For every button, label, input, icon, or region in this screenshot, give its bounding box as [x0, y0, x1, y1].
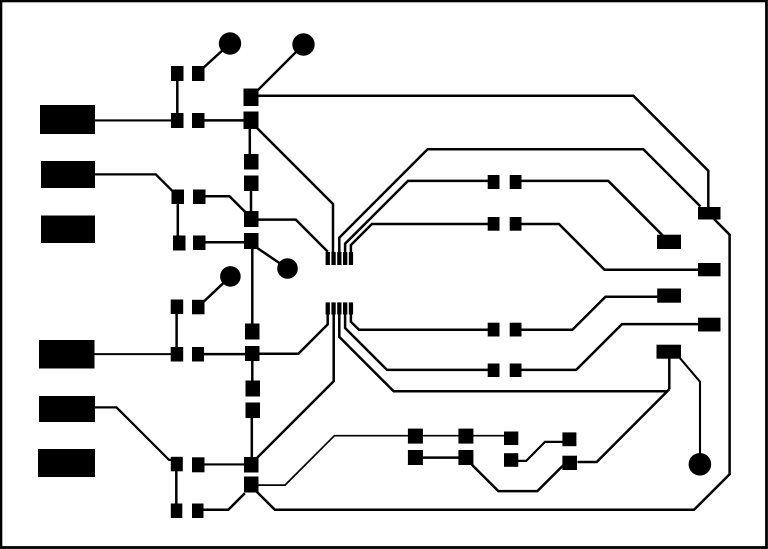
wire W17: [175, 314, 178, 349]
wire W10: [95, 174, 174, 192]
wire W1: [95, 119, 171, 121]
pad B2: [331, 302, 335, 314]
wire W14: [255, 247, 288, 269]
wire W2: [176, 81, 179, 113]
pad J2: [244, 112, 259, 130]
edge pad P4: [39, 340, 95, 369]
pad D4A: [173, 236, 186, 251]
pad D7A: [171, 457, 183, 472]
wire W13: [206, 241, 246, 244]
pad R4R: [510, 364, 522, 378]
pad B3: [337, 302, 341, 314]
edge pad P6: [38, 449, 95, 477]
wire W41: [339, 314, 667, 392]
edge pad P5: [39, 396, 95, 422]
wire W43: [578, 389, 670, 462]
via V4: [277, 258, 298, 279]
wire W16: [203, 276, 231, 302]
pad PF: [657, 345, 682, 359]
wire W26: [175, 471, 178, 504]
pad PE: [698, 318, 721, 332]
wire W25: [95, 407, 172, 460]
wire W48: [472, 465, 564, 492]
pad R1L: [488, 175, 500, 189]
pad R2L: [488, 217, 500, 231]
wire W39: [345, 314, 488, 370]
pad D6B: [192, 347, 204, 362]
pad SB: [244, 176, 259, 192]
wire W15: [251, 248, 254, 325]
wire W37: [351, 314, 488, 330]
pad SI: [244, 457, 259, 473]
pad Q5: [408, 450, 423, 465]
wire W34: [522, 181, 664, 236]
pad PD: [657, 289, 681, 303]
wire W22: [251, 418, 254, 459]
pad D4B: [193, 236, 206, 251]
pad R3R: [510, 323, 522, 337]
pad Q8: [562, 456, 577, 470]
pad T5: [349, 252, 353, 265]
wire W30: [256, 219, 730, 510]
wire W12: [206, 196, 247, 213]
pad R3L: [488, 323, 500, 337]
pad D7B: [192, 457, 205, 472]
via V2: [292, 33, 314, 55]
edge pad P1: [40, 105, 95, 134]
pad R2R: [510, 217, 522, 231]
wire W19: [204, 353, 247, 356]
pad Q7: [504, 453, 518, 467]
pad T3: [337, 252, 341, 265]
pad D1B: [192, 66, 205, 81]
wire W35: [351, 224, 488, 254]
via V1: [219, 32, 241, 54]
wire W24: [204, 463, 245, 465]
pad B4: [343, 302, 347, 314]
pad Q3: [504, 432, 518, 446]
wire W7: [257, 96, 708, 208]
pad J1: [244, 89, 259, 107]
wire W44: [680, 358, 700, 456]
pad B5: [349, 302, 353, 314]
pad SG: [246, 381, 261, 397]
wire W23: [257, 314, 334, 458]
wire W46: [518, 442, 563, 461]
edge pad P3: [41, 216, 95, 244]
edge pad P2: [41, 161, 95, 188]
pad SH: [246, 403, 261, 419]
pad Q6: [458, 450, 473, 465]
pad D1A: [171, 66, 184, 81]
wire W20: [259, 314, 328, 354]
wire W11: [177, 203, 180, 237]
via V3: [220, 266, 241, 287]
wire W8: [250, 190, 253, 212]
pad T4: [343, 252, 347, 265]
wire W9: [257, 128, 334, 255]
wire W40: [522, 324, 700, 370]
pad PC: [698, 263, 721, 276]
pad D2A: [171, 113, 184, 128]
pad SD: [244, 233, 259, 249]
pad D6A: [171, 347, 184, 362]
pad SC: [244, 211, 259, 227]
wire W33: [345, 181, 488, 254]
pad Q2: [458, 429, 473, 444]
wire W31: [258, 220, 328, 252]
pad B1: [326, 302, 330, 314]
wire W4: [205, 119, 245, 122]
pad T2: [331, 252, 335, 265]
wire W29: [257, 436, 505, 485]
pad R1R: [510, 175, 522, 189]
via V5: [689, 453, 712, 476]
pad D2B: [192, 113, 205, 128]
pad SJ: [244, 477, 259, 493]
pad D5A: [171, 300, 184, 315]
wire W18: [95, 353, 172, 355]
pad T1: [326, 252, 330, 265]
pad PB: [657, 235, 681, 249]
pad D8B: [192, 504, 204, 519]
wire W36: [522, 224, 700, 270]
wire W6: [251, 45, 304, 98]
wire W38: [522, 297, 659, 330]
pad D5B: [192, 300, 205, 315]
pad SF: [245, 346, 260, 361]
wire W5: [249, 128, 252, 155]
pad R4L: [488, 364, 500, 378]
wire W32: [339, 149, 700, 253]
pad SE: [245, 324, 260, 340]
wire W47: [423, 456, 460, 459]
wire W42: [668, 358, 671, 389]
pad SA: [244, 154, 259, 170]
pad D8A: [171, 504, 183, 519]
wire W21: [251, 361, 254, 382]
pad D3B: [193, 190, 206, 205]
pad Q4: [562, 432, 576, 446]
pad D3A: [172, 190, 185, 205]
pad Q1: [408, 429, 423, 444]
wire W27: [203, 493, 245, 510]
pad PA: [698, 207, 721, 220]
wire W3: [202, 44, 231, 70]
